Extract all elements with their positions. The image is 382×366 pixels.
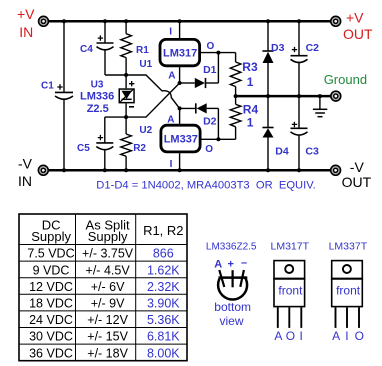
wire ground mid rail [236,95,333,98]
diode D4 [262,96,288,170]
svg-text:IN: IN [19,24,33,40]
node junction bottom U2 input [178,168,182,172]
svg-text:A: A [214,259,222,271]
svg-text:I: I [169,27,172,38]
svg-text:Ground: Ground [324,72,367,87]
node junction bottom D4 [266,168,270,172]
svg-text:1: 1 [247,75,254,89]
resistor R1 [121,21,149,75]
svg-text:front: front [278,284,303,298]
svg-text:view: view [220,314,244,328]
terminal Ground [331,91,341,101]
svg-text:OUT: OUT [343,26,373,42]
svg-text:LM317T: LM317T [271,241,310,253]
svg-text:U2: U2 [139,125,152,136]
node +V OUT label [343,9,373,42]
wire bottom rail [46,169,333,172]
svg-text:36 VDC: 36 VDC [29,346,73,360]
svg-text:C2: C2 [306,42,320,54]
svg-text:D4: D4 [275,146,289,158]
svg-text:2.32K: 2.32K [147,280,180,294]
svg-text:OUT: OUT [342,174,372,190]
wire U2 output [202,138,236,140]
resistor R3 [230,53,258,97]
svg-text:24 VDC: 24 VDC [29,313,73,327]
diode D1 [180,53,219,89]
svg-text:+V: +V [346,9,364,25]
node U2 output junction [216,137,220,141]
svg-text:+/- 9V: +/- 9V [91,297,125,311]
svg-text:O: O [205,144,213,155]
node junction top U1 input [178,19,182,23]
svg-text:I: I [345,329,348,343]
svg-text:-V: -V [350,159,365,175]
svg-text:–: – [241,257,247,269]
node junction mid C2 C3 [297,94,301,98]
svg-text:+: + [228,259,234,271]
ground symbol [313,96,327,117]
svg-text:LM336Z2.5: LM336Z2.5 [206,242,257,253]
svg-text:R1: R1 [136,45,149,56]
node junction mid ground symbol [318,94,322,98]
node +V IN label [17,6,35,40]
node zener bottom junction [124,115,128,119]
terminal -V IN [38,165,48,175]
node junction bottom R2 [124,168,128,172]
svg-text:30 VDC: 30 VDC [29,330,73,344]
resistor R2 [121,117,147,170]
node U1 output junction [216,51,220,55]
zener U3 LM336 in box [80,75,134,117]
svg-text:R3: R3 [242,60,258,74]
svg-text:O: O [286,329,295,343]
svg-text:+/- 18V: +/- 18V [87,346,128,360]
diode D2 [180,103,219,139]
svg-text:C4: C4 [80,44,93,55]
node junction bottom C5 [103,168,107,172]
wire U1 adjust lead [179,67,181,83]
svg-text:D3: D3 [271,42,285,54]
svg-text:O: O [207,41,215,52]
svg-text:bottom: bottom [214,300,251,314]
wire diagonal zener-bottom to U1 adjust [126,83,180,117]
node junction top C1 [62,19,66,23]
terminal -V OUT [331,165,341,175]
svg-text:+/- 4.5V: +/- 4.5V [86,263,131,277]
package LM336 TO-92 bottom view [206,242,257,329]
svg-text:LM336: LM336 [80,91,114,103]
node junction mid D3 D4 [266,94,270,98]
svg-text:5.36K: 5.36K [147,313,180,327]
diode D3 [262,21,284,96]
capacitor C1 [41,21,73,170]
svg-text:+/- 6V: +/- 6V [91,280,125,294]
svg-text:I: I [170,159,173,170]
svg-text:-V: -V [18,156,33,172]
svg-text:866: 866 [153,247,174,261]
node junction bottom C3 [297,168,301,172]
svg-text:LM337: LM337 [164,134,198,146]
svg-text:IN: IN [18,173,32,189]
svg-text:D1: D1 [203,64,217,76]
svg-text:3.90K: 3.90K [147,297,180,311]
regulator U2 LM337 [161,115,213,171]
svg-text:12 VDC: 12 VDC [29,280,73,294]
svg-text:1: 1 [247,115,254,129]
capacitor C3 [291,96,319,170]
node junction bottom C1 [62,168,66,172]
node U1 adjust junction [178,81,182,85]
svg-text:Supply: Supply [31,229,71,244]
capacitor C5 [77,117,126,170]
node -V OUT label [342,159,372,190]
wire crossover diagonal zener-top to U2 adjust (with hop) [126,75,180,108]
svg-text:D2: D2 [203,116,217,128]
capacitor C2 [291,21,320,96]
svg-text:A: A [274,329,282,343]
svg-text:+/- 15V: +/- 15V [87,330,128,344]
svg-text:A: A [332,329,340,343]
terminal +V OUT [331,16,341,26]
svg-text:A: A [168,71,175,82]
svg-text:U1: U1 [139,59,152,70]
node junction top C4 [103,19,107,23]
svg-text:1.62K: 1.62K [147,263,180,277]
svg-text:I: I [300,329,303,343]
svg-text:D1-D4 = 1N4002, MRA4003T3 OR: D1-D4 = 1N4002, MRA4003T3 OR EQUIV. [96,179,315,191]
svg-text:8.00K: 8.00K [147,346,180,360]
svg-text:R4: R4 [243,102,259,116]
svg-text:O: O [355,329,364,343]
svg-text:Supply: Supply [88,229,128,244]
table resistor selection [19,214,187,361]
node junction top C2 [297,19,301,23]
resistor R4 [230,96,258,139]
node U2 adjust junction [178,106,182,110]
node -V IN label [18,156,33,189]
svg-text:6.81K: 6.81K [147,330,180,344]
svg-text:C1: C1 [41,81,54,92]
package LM317T TO-220 front view [271,241,310,344]
node junction mid R3 R4 [234,94,238,98]
node zener top junction [124,73,128,77]
svg-text:R1, R2: R1, R2 [143,223,183,238]
regulator U1 LM317 [160,21,215,81]
svg-text:+/- 12V: +/- 12V [87,313,128,327]
capacitor C4 [80,21,126,75]
svg-text:front: front [336,284,361,298]
wire U2 adjust lead [179,108,181,123]
svg-text:LM317: LM317 [163,48,197,60]
package LM337T TO-220 front view [329,241,368,344]
svg-text:LM337T: LM337T [329,241,368,253]
svg-text:9 VDC: 9 VDC [33,263,70,277]
svg-text:A: A [167,115,174,126]
svg-text:U3: U3 [91,79,104,90]
node junction top R1 [124,19,128,23]
svg-text:C5: C5 [77,143,90,154]
svg-text:C3: C3 [305,146,319,158]
wire top rail [46,20,333,23]
node junction top D3 [266,19,270,23]
terminal +V IN [39,16,49,26]
svg-text:18 VDC: 18 VDC [29,297,73,311]
wire U1 output [201,52,236,54]
svg-text:7.5 VDC: 7.5 VDC [27,247,74,261]
svg-text:R2: R2 [133,143,146,154]
svg-text:+/- 3.75V: +/- 3.75V [82,247,134,261]
svg-text:Z2.5: Z2.5 [87,103,109,115]
svg-text:+V: +V [17,6,35,22]
